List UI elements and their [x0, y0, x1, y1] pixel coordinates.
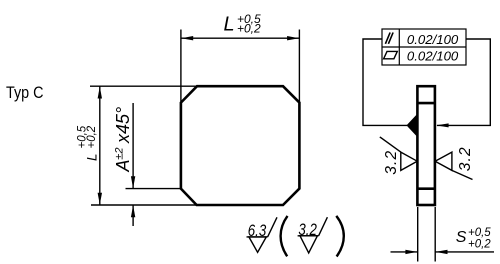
svg-text:+0,2: +0,2 [237, 22, 261, 36]
chamfer dimension A value text (rotated) [113, 107, 133, 173]
chamfer dimension A upper arrowhead (pointing down) [131, 176, 135, 188]
surface finish symbol 6.3 bar [247, 236, 268, 238]
svg-text:+0,2: +0,2 [86, 125, 98, 148]
datum triangle (filled) [407, 114, 418, 137]
parallelism symbol [385, 33, 393, 44]
left dimension L dimension line [99, 86, 101, 205]
side view plate outline [417, 86, 435, 205]
top dimension L left arrowhead [181, 36, 193, 40]
side surface finish symbol left triangle [401, 152, 417, 170]
chamfer dimension A lower arrowhead (pointing up) [131, 205, 135, 217]
surface finish symbol 6.3 flank [268, 217, 277, 237]
svg-text:0.02/100: 0.02/100 [407, 49, 459, 64]
chamfer dimension A upper dimension line [132, 103, 134, 189]
svg-text:Typ C: Typ C [6, 83, 44, 102]
feature control frame row divider [382, 46, 466, 48]
side surface finish symbol left flank [380, 137, 401, 152]
side view lower chamfer line [417, 187, 435, 190]
svg-text:6.3: 6.3 [248, 221, 267, 240]
chamfer dimension A extension line [126, 188, 182, 190]
chamfer dimension A lower dimension line [132, 205, 134, 226]
closing parenthesis [336, 216, 344, 257]
feature control frame column divider [398, 29, 400, 65]
svg-text:3.2: 3.2 [298, 220, 317, 239]
opening parenthesis [281, 216, 288, 256]
tolerance leader arrowhead [436, 123, 448, 127]
top dimension L right arrowhead [287, 36, 299, 40]
datum leader line (left) [363, 39, 407, 125]
feature control frame outline [382, 29, 466, 65]
thickness dimension S value text [456, 227, 492, 251]
side surface finish symbol right value (rotated) [457, 146, 474, 171]
surface finish symbol 3.2 triangle [300, 236, 317, 253]
top dimension L value text [224, 12, 262, 35]
left dimension L value text (rotated) [77, 125, 100, 161]
svg-text:0.02/100: 0.02/100 [407, 32, 459, 47]
svg-text:A: A [113, 159, 133, 172]
side view upper chamfer line [417, 102, 435, 105]
surface finish symbol 3.2 flank [319, 217, 328, 236]
svg-text:3.2: 3.2 [383, 150, 400, 175]
top dimension L extension line left [180, 30, 182, 102]
thickness dimension S extension line left [417, 207, 419, 262]
flatness symbol [384, 51, 398, 58]
svg-text:x45°: x45° [113, 107, 133, 144]
svg-text:+0,2: +0,2 [468, 238, 491, 250]
side surface finish symbol right flank [452, 170, 473, 179]
svg-text:L: L [85, 153, 100, 161]
side surface finish symbol right triangle [435, 152, 452, 170]
thickness dimension S right arrowhead (pointing left) [436, 250, 448, 254]
surface finish symbol 3.2 bar [298, 235, 319, 237]
svg-text:+0,5: +0,5 [468, 227, 491, 239]
left dimension L top arrowhead [98, 87, 102, 99]
surface finish symbol 6.3 triangle [249, 237, 266, 252]
front view octagon plate outline [181, 86, 300, 205]
thickness dimension S left dimension line [391, 251, 418, 253]
thickness dimension S left arrowhead (pointing right) [405, 250, 417, 254]
top dimension L dimension line [181, 37, 300, 39]
svg-text:L: L [224, 14, 235, 36]
thickness dimension S right dimension line [435, 251, 494, 253]
svg-text:±2: ±2 [113, 148, 125, 160]
side surface finish symbol left value (rotated) [383, 150, 400, 175]
left dimension L extension line bottom (shared with A dimension) [91, 204, 197, 206]
svg-text:3.2: 3.2 [457, 146, 474, 171]
top dimension L extension line right [298, 30, 300, 102]
tolerance leader line (right) [437, 39, 490, 125]
left dimension L extension line top [90, 85, 197, 87]
left dimension L bottom arrowhead [98, 193, 102, 205]
thickness dimension S extension line right [434, 207, 436, 262]
svg-text:S: S [456, 229, 467, 246]
